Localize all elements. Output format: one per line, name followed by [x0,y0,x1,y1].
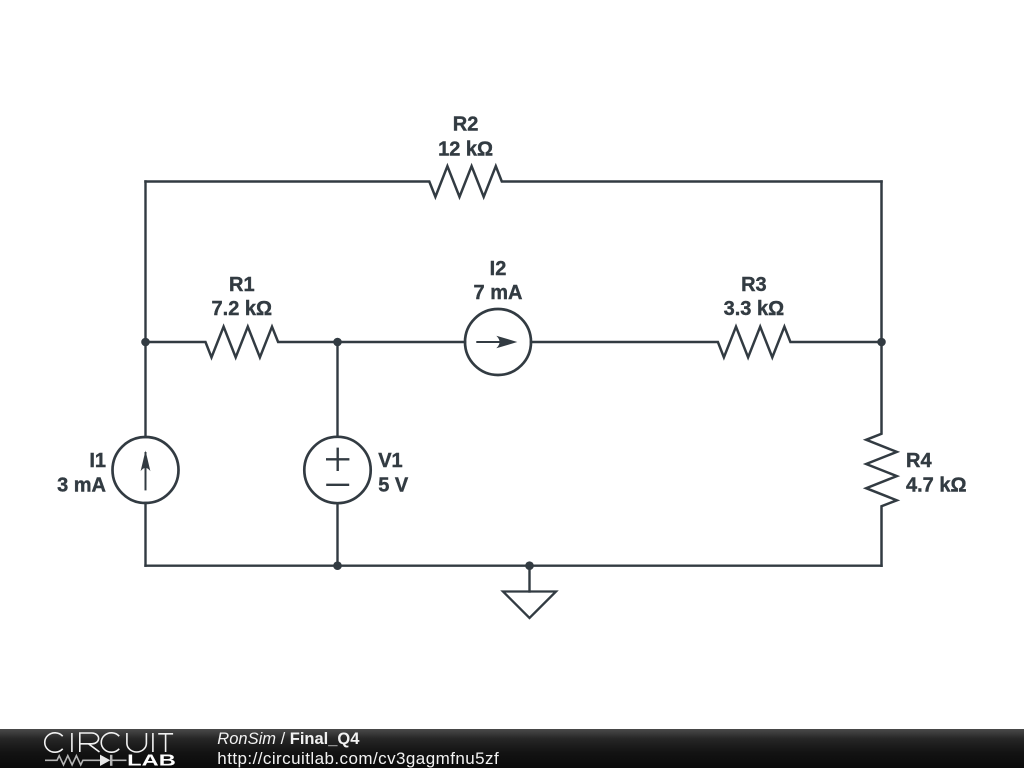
svg-text:7.2 kΩ: 7.2 kΩ [212,298,273,320]
svg-text:R4: R4 [906,450,932,472]
svg-text:R2: R2 [453,113,479,135]
svg-text:3 mA: 3 mA [57,475,106,497]
svg-text:I1: I1 [89,450,106,472]
svg-text:V1: V1 [378,450,402,472]
svg-text:3.3 kΩ: 3.3 kΩ [724,298,785,320]
svg-text:4.7 kΩ: 4.7 kΩ [906,474,967,496]
svg-text:RonSim / Final_Q4: RonSim / Final_Q4 [217,730,360,748]
svg-text:5 V: 5 V [378,475,409,497]
svg-text:I2: I2 [490,258,507,280]
svg-text:R1: R1 [229,274,255,296]
svg-text:LAB: LAB [127,752,176,768]
svg-text:R3: R3 [741,274,767,296]
svg-text:http://circuitlab.com/cv3gagmf: http://circuitlab.com/cv3gagmfnu5zf [217,749,499,768]
svg-text:7 mA: 7 mA [474,282,523,304]
svg-text:12 kΩ: 12 kΩ [438,139,493,161]
